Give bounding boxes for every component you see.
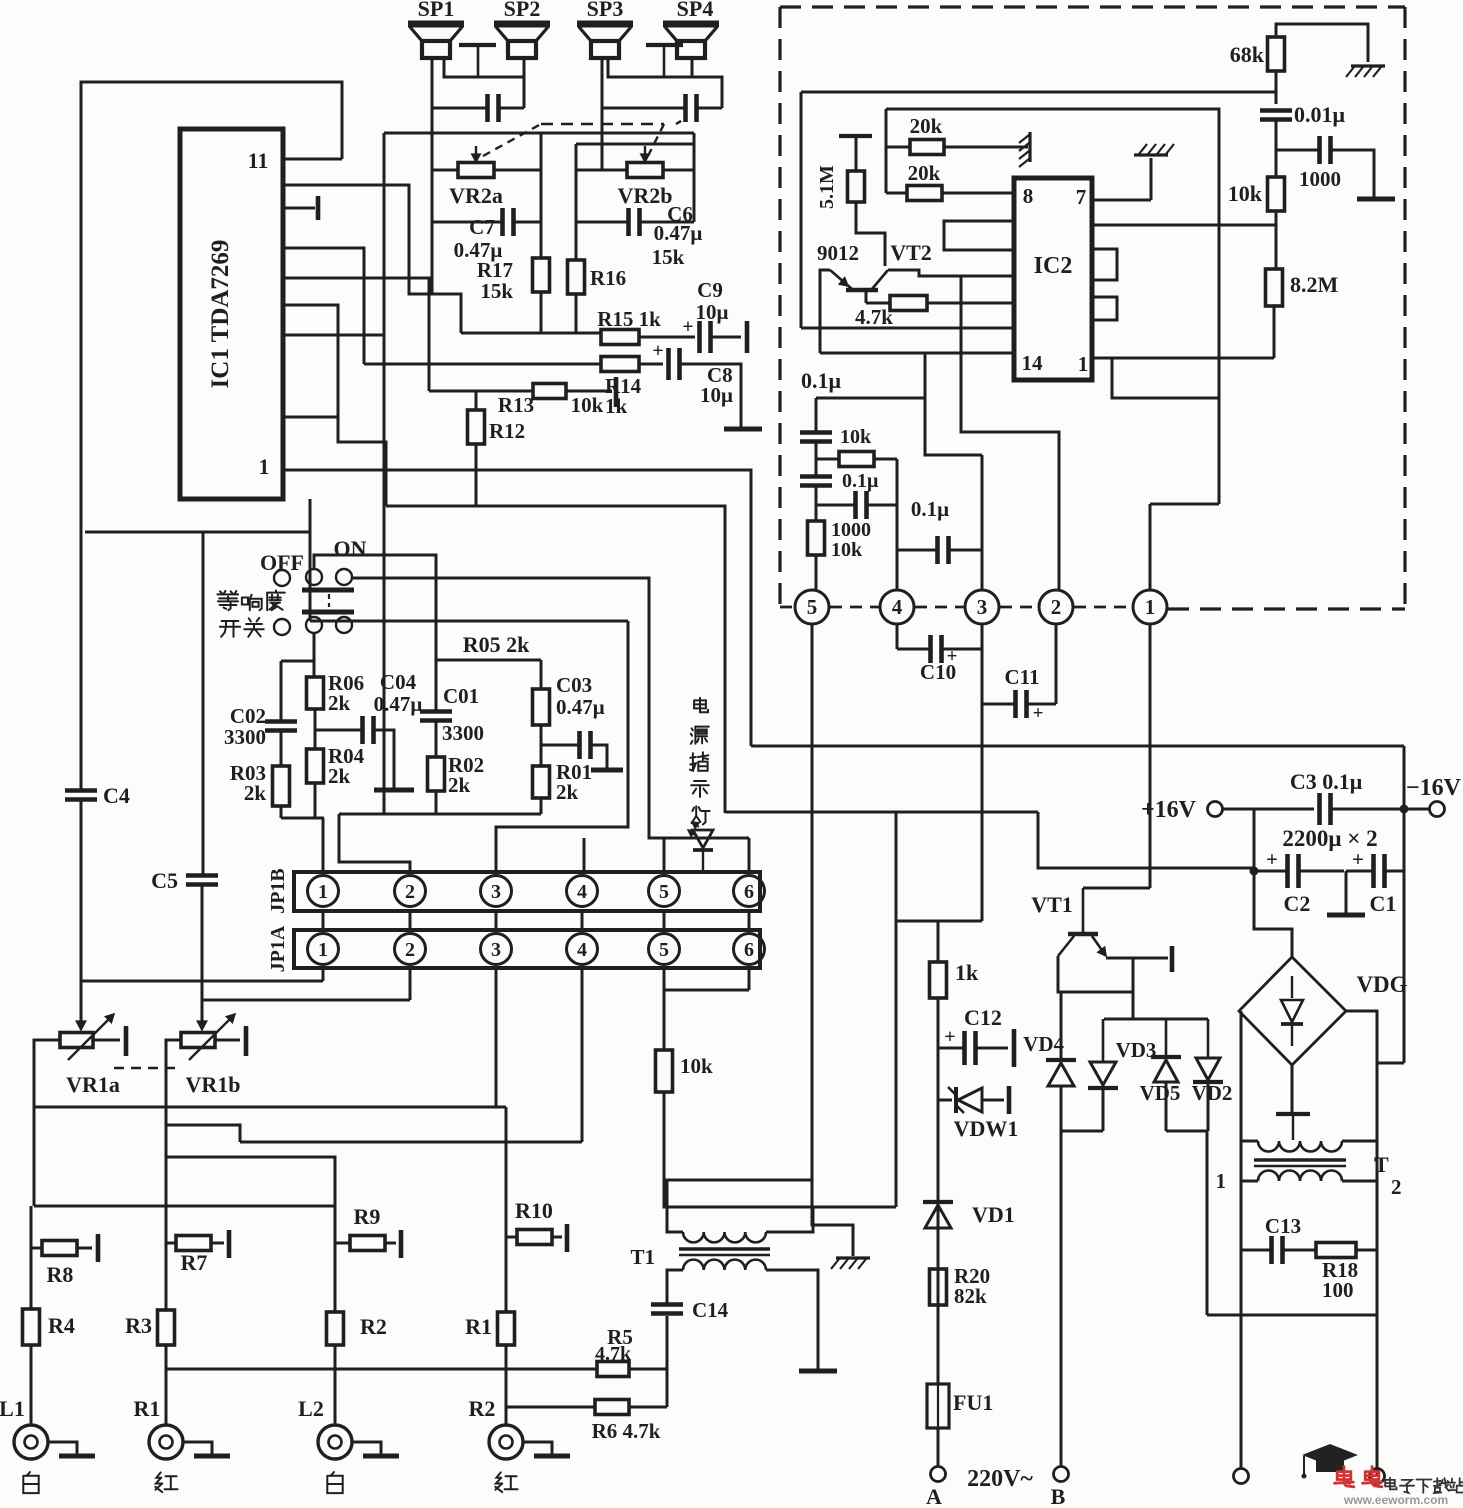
svg-text:IC1 TDA7269: IC1 TDA7269: [207, 240, 234, 389]
wire switch to C01 column: [314, 555, 436, 710]
resistor R5: [597, 1362, 629, 1377]
wire SP2 stem: [523, 58, 526, 108]
label VD1: [972, 1202, 1015, 1227]
label R20: [954, 1264, 990, 1308]
wire 1000pf row: [1276, 150, 1374, 197]
svg-text:1: 1: [318, 881, 328, 903]
label R01: [556, 760, 592, 804]
IC1 pin 11 label: [248, 148, 269, 173]
resistor R04: [307, 749, 324, 783]
wire C10 row: [897, 648, 982, 651]
wire bus row 1369: [166, 1368, 597, 1371]
svg-text:VR2a: VR2a: [449, 183, 503, 208]
resistor 1000 10k: [808, 521, 825, 555]
svg-text:C03: C03: [556, 673, 592, 697]
svg-text:15k: 15k: [652, 245, 685, 269]
wire T1 primary right: [766, 1269, 812, 1272]
svg-text:C2: C2: [1284, 891, 1311, 916]
resistor R15: [601, 330, 639, 345]
wire R3 to conn: [165, 1345, 168, 1425]
svg-text:R4: R4: [48, 1313, 75, 1338]
wire VR2b box top: [576, 133, 694, 222]
label OFF: [260, 550, 304, 575]
label C04: [374, 670, 423, 716]
wire SP3 stem: [601, 58, 604, 170]
svg-text:R15 1k: R15 1k: [597, 307, 661, 331]
wire row 1157: [166, 1157, 335, 1206]
wire frame left: [800, 92, 803, 328]
capacitor 0.01u: [1260, 111, 1292, 120]
svg-text:VT2: VT2: [890, 240, 932, 265]
label R03: [230, 761, 266, 805]
svg-text:2: 2: [405, 881, 415, 903]
svg-text:4: 4: [577, 939, 587, 961]
svg-text:0.01μ: 0.01μ: [1294, 102, 1346, 127]
wire VR1a wiper feed: [76, 1011, 85, 1030]
transistor VT2 9012: [830, 270, 1014, 290]
dashed box bottom segs: [780, 607, 1405, 609]
label R05 2k: [463, 632, 530, 657]
wire C04 row: [315, 730, 394, 788]
wire R14 to C8: [639, 363, 663, 366]
wire JP1B pin6 stub: [748, 838, 751, 872]
svg-text:C01: C01: [443, 684, 479, 708]
label C3 0.1u: [1290, 769, 1363, 794]
svg-text:9012: 9012: [817, 241, 859, 265]
label power indicator: [690, 698, 710, 825]
wire IC2 pin7 to ground: [1092, 158, 1151, 200]
label C03: [556, 673, 605, 719]
terminal bar VR1b: [244, 1026, 249, 1056]
capacitor 0.1u chain2: [800, 477, 832, 486]
wire to JP1B pin2: [339, 814, 410, 872]
resistor R01: [533, 766, 550, 798]
IC2 left tab: [944, 221, 1014, 250]
common terminal T symbol pair2: [646, 45, 683, 77]
label 9012: [817, 241, 859, 265]
svg-text:11: 11: [248, 148, 269, 173]
svg-text:R6 4.7k: R6 4.7k: [592, 1419, 661, 1443]
wire T1 sec right col: [812, 1270, 818, 1369]
svg-text:R1: R1: [134, 1396, 161, 1421]
terminal bar 5.1M top: [839, 134, 872, 138]
svg-text:8.2M: 8.2M: [1290, 272, 1339, 297]
svg-text:VR1a: VR1a: [66, 1072, 120, 1097]
wire C03 R01 link: [540, 725, 543, 766]
wire JP1A pin2 stub: [409, 968, 412, 1000]
svg-text:10μ: 10μ: [700, 383, 733, 407]
connector R1 input: [149, 1425, 183, 1459]
svg-text:C12: C12: [964, 1005, 1002, 1030]
svg-text:14: 14: [1022, 351, 1044, 375]
dashed box left: [778, 7, 781, 607]
wire long vertical x384: [383, 133, 386, 813]
wire C1 row: [1346, 870, 1404, 873]
svg-text:C3 0.1μ: C3 0.1μ: [1290, 769, 1363, 794]
resistor R16: [568, 260, 585, 294]
wire IC1 pin1 long row y470: [283, 470, 751, 746]
VR2b wiper arrow: [641, 146, 649, 162]
svg-text:4: 4: [892, 595, 903, 619]
svg-text:VR2b: VR2b: [617, 183, 672, 208]
label 220V: [967, 1466, 1033, 1492]
label R7: [181, 1250, 208, 1275]
svg-text:220V~: 220V~: [967, 1466, 1033, 1492]
VR2a wiper arrow: [472, 146, 480, 162]
wire R05 row: [436, 659, 541, 662]
capacitor C2 polarized: [1266, 847, 1298, 888]
svg-text:0.1μ: 0.1μ: [911, 497, 949, 521]
wire C11 row: [982, 703, 1056, 706]
transformer T1 primary coil: [683, 1260, 766, 1270]
wire IC1 pin11: [283, 158, 342, 161]
wire 0.1u mid row: [897, 549, 982, 552]
svg-text:3: 3: [491, 881, 501, 903]
wire VD5 bottom: [1165, 1082, 1168, 1131]
svg-text:3: 3: [977, 595, 988, 619]
svg-text:2: 2: [1391, 1175, 1402, 1199]
wire switch pole2 to R06: [313, 632, 316, 677]
resistor 20k lower: [886, 186, 942, 201]
resistor R18: [1316, 1243, 1356, 1258]
wire R5 to C14 node: [629, 1368, 667, 1371]
resistor R13: [533, 384, 566, 399]
svg-text:68k: 68k: [1230, 42, 1265, 67]
wire row 1142: [240, 1141, 582, 1144]
svg-text:B: B: [1051, 1484, 1066, 1508]
wire node1 lower column: [1149, 624, 1152, 888]
wire node4 column: [896, 459, 899, 590]
svg-text:VT1: VT1: [1031, 892, 1073, 917]
label C8 value: [700, 383, 733, 407]
capacitor 0.1u chain1: [800, 398, 832, 442]
wire transformer bottom row: [1207, 1314, 1377, 1317]
VR1b diagonal: [189, 1014, 235, 1060]
wire 20k upper to ground: [944, 146, 1028, 149]
wire T1 primary left: [667, 1270, 683, 1303]
label C6 value: [654, 221, 703, 245]
wire node2 lower stub: [1055, 624, 1058, 704]
svg-text:R16: R16: [590, 266, 626, 290]
svg-text:20k: 20k: [908, 161, 941, 185]
resistor 8.2M: [1266, 269, 1283, 306]
label 10k chain: [840, 426, 872, 448]
wire box inner to JP1B pin3: [496, 621, 628, 872]
connector JP1B: [294, 872, 765, 911]
svg-text:1: 1: [318, 939, 328, 961]
svg-text:1: 1: [1216, 1169, 1227, 1193]
label switch: [220, 618, 264, 637]
label 10k bottom: [680, 1054, 713, 1078]
label 1k: [955, 960, 979, 985]
wire bridge bottom to tap: [1291, 1065, 1294, 1114]
watermark site name: [1385, 1478, 1463, 1493]
svg-text:+: +: [682, 316, 693, 338]
switch pole2 bar: [302, 610, 354, 615]
wire VT1 emitter row: [1106, 957, 1168, 960]
wire VR1b right: [215, 1039, 240, 1042]
label C6 value2: [652, 245, 685, 269]
label R6 4.7k: [592, 1419, 661, 1443]
svg-text:5: 5: [659, 939, 669, 961]
wire T1 sec left: [667, 1180, 812, 1232]
terminal B circle: [1054, 1467, 1069, 1482]
VR1a diagonal: [68, 1014, 114, 1060]
capacitor C7: [503, 208, 514, 236]
svg-text:10k: 10k: [571, 393, 604, 417]
label R14: [605, 374, 642, 398]
wire 5.1M to VT2 collector node: [856, 202, 885, 266]
label R13: [498, 393, 604, 417]
resistor 10k right: [1268, 177, 1285, 211]
wire pair1 link y77: [444, 58, 524, 77]
svg-text:R13: R13: [498, 393, 534, 417]
wire C2 row: [1254, 870, 1344, 873]
svg-text:2k: 2k: [244, 781, 267, 805]
svg-text:ON: ON: [334, 536, 367, 561]
svg-text:4.7k: 4.7k: [855, 305, 893, 329]
wire C8 to ground: [680, 364, 741, 427]
label VR2a: [449, 183, 503, 208]
svg-text:8: 8: [1023, 184, 1034, 208]
svg-text:2k: 2k: [448, 773, 471, 797]
label R2 red: [495, 1472, 517, 1492]
wire C5 column lower: [201, 886, 204, 1011]
switch OFF circle bottom: [274, 619, 290, 635]
wire inner frame: [886, 109, 1219, 504]
junction caps row: [1250, 867, 1259, 876]
resistor R17: [533, 258, 550, 292]
wire JP1B pin5 stub: [663, 838, 666, 872]
terminal bar R7: [227, 1230, 232, 1258]
transistor VT1: [1058, 888, 1106, 956]
svg-text:1: 1: [259, 454, 270, 479]
resistor R03: [273, 766, 290, 806]
wire R13 row: [429, 390, 533, 393]
label VT2: [890, 240, 932, 265]
label 68k: [1230, 42, 1265, 67]
label R17: [477, 258, 513, 282]
label L1: [0, 1396, 25, 1421]
capacitor C6: [629, 208, 640, 236]
label C7: [469, 215, 495, 239]
wire pair2 link y77: [608, 58, 722, 108]
wire R1 to conn: [505, 1345, 508, 1425]
svg-text:VD5: VD5: [1140, 1081, 1181, 1105]
wire IC1 pin row2 staircase: [283, 185, 461, 333]
wire VT2 emitter down: [820, 270, 830, 353]
IC U2 IC2 body: [1014, 178, 1092, 380]
svg-text:R9: R9: [354, 1204, 381, 1229]
wire row y812: [725, 811, 1038, 814]
svg-text:C11: C11: [1004, 665, 1039, 689]
wire JP1A pin3 column: [495, 968, 498, 1107]
wire node5 stub: [812, 555, 816, 590]
wire JP1A pin1 stub: [322, 968, 325, 981]
label R04: [328, 744, 365, 788]
label C9 value: [696, 300, 729, 324]
label SP4: [677, 0, 714, 21]
wire L2 column: [334, 1157, 337, 1312]
dashed box top: [780, 5, 1405, 8]
svg-text:+: +: [944, 1026, 955, 1048]
resistor 5.1M: [848, 171, 865, 202]
resistor 10k bottom: [656, 1050, 673, 1092]
terminal bar R8: [96, 1234, 101, 1262]
wire IC1 decoupling stub: [283, 207, 315, 210]
label L2: [298, 1396, 324, 1421]
capacitor pair1: [488, 94, 499, 122]
label FU1: [953, 1390, 993, 1415]
svg-text:3: 3: [491, 939, 501, 961]
terminal bar VDW1: [1007, 1086, 1012, 1114]
label L2 white: [327, 1472, 342, 1493]
wire bridge top feed: [1254, 871, 1292, 957]
resistor 68k: [1268, 37, 1285, 71]
capacitor C13: [1272, 1236, 1283, 1264]
switch OFF circle top: [274, 570, 290, 586]
resistor R3: [158, 1310, 175, 1345]
wire cap chain top row: [816, 397, 925, 400]
svg-text:R05 2k: R05 2k: [463, 632, 530, 657]
svg-text:C9: C9: [697, 278, 723, 302]
svg-text:VD3: VD3: [1116, 1038, 1157, 1062]
IC2 pin labels: [1022, 184, 1089, 376]
node terminal 3: [965, 590, 999, 624]
svg-text:VD4: VD4: [1023, 1032, 1064, 1056]
svg-text:2: 2: [1051, 595, 1062, 619]
wire L1 column: [30, 1206, 33, 1309]
diode VD1: [923, 1202, 953, 1228]
label C1: [1370, 891, 1397, 916]
wire IC1 pin row3 staircase: [283, 248, 364, 364]
ground bar T1: [799, 1369, 837, 1374]
label VR2b: [617, 183, 672, 208]
wire to JP1B pin1: [322, 818, 325, 872]
node terminal 5: [795, 590, 829, 624]
resistor R8: [31, 1241, 92, 1256]
wire node3 to 1k row: [938, 920, 982, 923]
wire T1 sec right: [766, 1207, 813, 1232]
wire VT1 collector column: [1058, 956, 1061, 1058]
terminal bridge right circle: [1370, 1469, 1385, 1484]
wire R18 right: [1356, 1249, 1377, 1252]
svg-text:10k: 10k: [840, 426, 872, 448]
svg-text:2k: 2k: [556, 780, 579, 804]
chassis ground 68k: [1346, 66, 1385, 77]
wire +16 to caps row: [1253, 809, 1256, 868]
wire R14 row: [364, 363, 601, 366]
LED power indicator: [688, 822, 713, 872]
terminal +16V circle: [1208, 802, 1223, 817]
watermark chongchong: [1335, 1467, 1382, 1487]
fuse FU1: [927, 1384, 949, 1428]
switch pole1 circles: [306, 569, 352, 585]
capacitor C02: [265, 722, 297, 731]
wire emitter junction link: [1061, 958, 1133, 992]
svg-text:1000: 1000: [1299, 167, 1341, 191]
resistor R10: [506, 1230, 562, 1245]
svg-text:C5: C5: [151, 868, 178, 893]
potentiometer VR1b: [181, 1033, 215, 1048]
label R15 1k: [597, 307, 661, 331]
label R9: [354, 1204, 381, 1229]
wire circle5 ground column: [812, 623, 853, 1256]
svg-text:10k: 10k: [1228, 181, 1263, 206]
label -16V: [1406, 775, 1462, 801]
resistor R14: [601, 357, 639, 372]
transformer T core: [1254, 1160, 1346, 1166]
wire R2 to L2: [334, 1345, 337, 1425]
label R14 value: [605, 394, 628, 418]
wire C4 column lower: [80, 801, 83, 1011]
label VD4: [1023, 1032, 1064, 1056]
svg-text:C14: C14: [692, 1298, 729, 1322]
node terminal 1: [1133, 590, 1167, 624]
wire pin14 row: [820, 328, 1014, 353]
wire R04 bottom: [314, 783, 317, 818]
terminal bar R9: [399, 1230, 404, 1258]
wire R16 column: [575, 144, 578, 333]
transformer T center tap bar: [1276, 1114, 1310, 1140]
svg-text:C1: C1: [1370, 891, 1397, 916]
label JP1B: [267, 868, 289, 914]
dashed box right: [1403, 7, 1406, 609]
wire center ground stub: [1345, 871, 1348, 913]
capacitor 1000pf: [1320, 136, 1331, 164]
label loudness: [217, 590, 284, 610]
wire IC1 bottom pin to C5 route: [309, 499, 312, 621]
capacitor C4: [65, 790, 97, 800]
wire R06 R04 link: [314, 709, 317, 749]
svg-text:+: +: [1033, 703, 1044, 724]
svg-text:5.1M: 5.1M: [816, 165, 838, 209]
resistor 4.7k: [866, 296, 1014, 311]
wire row 1125: [166, 1125, 240, 1142]
svg-text:7: 7: [1076, 185, 1087, 209]
label B: [1051, 1484, 1066, 1508]
speaker SP2: [494, 24, 550, 58]
capacitor C11: [1016, 690, 1044, 724]
label R02: [448, 753, 484, 797]
label VD5: [1140, 1081, 1181, 1105]
wire JP1 interrow stubs: [323, 911, 749, 930]
wire R4 to L1: [30, 1345, 33, 1425]
label VR1b: [185, 1072, 240, 1097]
terminal bar branch: [591, 768, 623, 773]
label R06: [328, 671, 364, 715]
node terminal 4: [880, 590, 914, 624]
wire network bottom row left: [281, 817, 324, 820]
resistor 20k upper: [886, 140, 944, 155]
wire right rail down: [1403, 809, 1406, 1063]
capacitor 0.1u mid: [938, 536, 949, 564]
resistor R06: [307, 677, 324, 709]
capacitor 0.1u branch: [856, 491, 867, 519]
wire C6 row: [576, 221, 694, 224]
label C11: [1004, 665, 1039, 689]
wire 68k top to ground: [1276, 24, 1368, 62]
svg-text:82k: 82k: [954, 1284, 987, 1308]
wire JP1A pin5 column to 10k: [663, 968, 666, 1050]
svg-text:L2: L2: [298, 1396, 324, 1421]
capacitor C1 polarized: [1352, 847, 1384, 888]
label T: [1374, 1152, 1389, 1177]
svg-text:T1: T1: [630, 1245, 655, 1269]
svg-text:0.1μ: 0.1μ: [801, 368, 842, 393]
label R5: [595, 1325, 633, 1365]
svg-text:+: +: [1352, 847, 1364, 871]
